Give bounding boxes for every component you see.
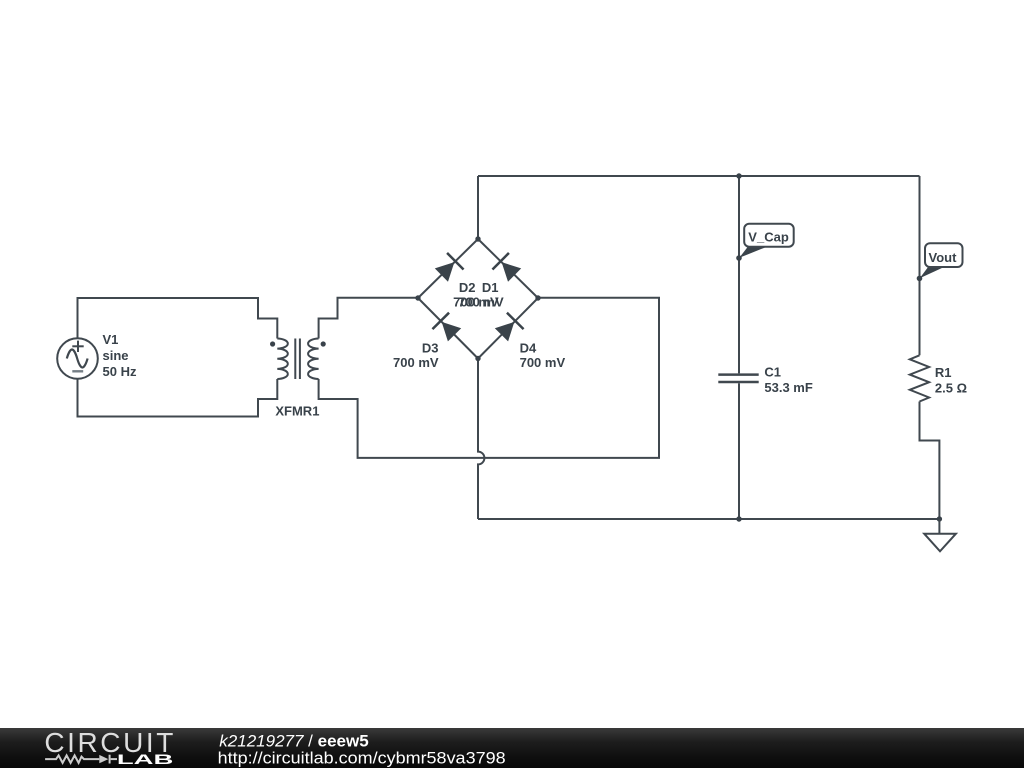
diode D1 (anode at right node, cathode toward top node) bbox=[492, 253, 522, 283]
+V top rail bbox=[478, 175, 920, 177]
svg-text:700 mV: 700 mV bbox=[520, 355, 566, 370]
ground bbox=[924, 519, 956, 551]
diode D4 (anode at bottom node, cathode toward right node) bbox=[493, 313, 523, 343]
svg-text:D1: D1 bbox=[482, 280, 499, 295]
svg-text:R1: R1 bbox=[935, 365, 952, 380]
svg-text:53.3 mF: 53.3 mF bbox=[764, 380, 812, 395]
net flag V_Cap bbox=[739, 224, 793, 258]
bridge edge wire bottom-right bbox=[478, 298, 538, 359]
bottom ground rail bbox=[478, 518, 939, 520]
secondary coil bbox=[308, 339, 319, 380]
bridge edge wire bottom-left bbox=[418, 298, 478, 359]
svg-text:sine: sine bbox=[103, 348, 129, 363]
junction dot top rail / C1 branch bbox=[736, 173, 741, 178]
svg-text:XFMR1: XFMR1 bbox=[275, 404, 319, 419]
core bbox=[294, 339, 296, 380]
V_Cap anchor dot bbox=[736, 255, 742, 261]
svg-text:50 Hz: 50 Hz bbox=[103, 364, 137, 379]
CircuitLab logo: resistor-diode schematic line bbox=[45, 755, 117, 764]
diode D3 (anode at bottom node, cathode toward left node) bbox=[432, 313, 462, 343]
junction dot bridge left node bbox=[415, 295, 420, 300]
svg-text:http://circuitlab.com/cybmr58v: http://circuitlab.com/cybmr58va3798 bbox=[218, 749, 506, 768]
svg-text:V_Cap: V_Cap bbox=[748, 230, 789, 245]
bridge edge wire top-right bbox=[478, 239, 538, 298]
svg-text:2.5 Ω: 2.5 Ω bbox=[935, 380, 967, 395]
svg-text:D3: D3 bbox=[422, 341, 439, 356]
svg-text:V1: V1 bbox=[103, 332, 119, 347]
diode D2 (anode at left node, cathode toward top node) bbox=[433, 253, 463, 283]
junction dot bridge bottom node bbox=[475, 356, 480, 361]
svg-text:D4: D4 bbox=[520, 341, 537, 356]
wire bridge top node to +V top rail bbox=[477, 176, 479, 239]
wire capacitor C1 to bottom rail bbox=[738, 383, 740, 519]
capacitor C1 bbox=[718, 375, 758, 382]
Vout anchor dot bbox=[917, 276, 923, 282]
voltage source V1 bbox=[57, 338, 98, 379]
primary coil bbox=[277, 339, 288, 380]
CircuitLab logo: diode triangle bbox=[99, 755, 108, 763]
wire top rail to resistor R1 bbox=[919, 176, 921, 355]
svg-text:LAB: LAB bbox=[117, 752, 174, 767]
junction dot bridge top node bbox=[475, 236, 480, 241]
XFMR1 primary phase dot bbox=[270, 341, 275, 346]
wire resistor R1 to bottom rail bbox=[920, 402, 940, 520]
net flag Vout bbox=[920, 243, 963, 278]
footer bar bbox=[0, 728, 1024, 768]
wire V1 top to XFMR1 primary top bbox=[78, 298, 278, 339]
svg-text:Vout: Vout bbox=[929, 250, 958, 265]
svg-text:700 mV: 700 mV bbox=[458, 294, 504, 309]
svg-text:C1: C1 bbox=[764, 365, 781, 380]
resistor R1 bbox=[910, 355, 929, 401]
wire top rail to capacitor C1 bbox=[738, 176, 740, 373]
wire XFMR1 secondary top to bridge left node bbox=[319, 298, 418, 339]
svg-text:D2: D2 bbox=[459, 280, 476, 295]
XFMR1 secondary phase dot bbox=[321, 341, 326, 346]
svg-text:700 mV: 700 mV bbox=[393, 355, 439, 370]
wire bridge bottom node to bottom rail (with hop over crossing wire) bbox=[478, 359, 484, 520]
wire V1 bottom to XFMR1 primary bottom bbox=[78, 379, 278, 417]
junction dot bottom rail / ground bbox=[937, 516, 942, 521]
junction dot bottom rail / C1 branch bbox=[736, 516, 741, 521]
transformer XFMR1 bbox=[277, 339, 318, 380]
bridge edge wire left-top bbox=[418, 239, 478, 298]
junction dot bridge right node bbox=[535, 295, 540, 300]
wire XFMR1 secondary bottom to bridge right node bbox=[319, 298, 659, 458]
